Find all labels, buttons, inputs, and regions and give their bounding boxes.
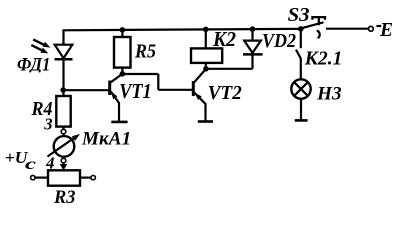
svg-text:Н3: Н3: [316, 83, 341, 104]
svg-text:R5: R5: [134, 41, 156, 63]
resistor R4: [56, 96, 70, 127]
wire photodiode to node: [62, 59, 64, 90]
node VD2 top junction dot: [250, 26, 256, 32]
wire node to R4: [62, 90, 64, 96]
ground lamp: [295, 119, 308, 122]
wire rail to R5: [121, 30, 123, 37]
wire node to VT1 base: [63, 89, 108, 91]
node R5 top junction dot: [120, 27, 126, 33]
wire R4 to terminal 3: [62, 127, 64, 130]
diode VD2: [243, 29, 263, 69]
svg-text:МкА1: МкА1: [81, 129, 131, 149]
light arrow 2: [31, 45, 48, 53]
wire node B right: [122, 73, 158, 75]
svg-text:VT2: VT2: [208, 82, 242, 104]
contact K2.1: [296, 50, 301, 59]
wire R3 left: [35, 177, 48, 179]
ground VT2: [198, 120, 213, 123]
terminal 4 circle: [61, 158, 66, 163]
terminal 3 circle: [61, 129, 66, 134]
photodiode FD1: [55, 45, 73, 60]
wire top rail: [64, 29, 302, 31]
relay coil K2: [191, 48, 222, 63]
wire S3 node down to contact K2.1: [300, 29, 302, 48]
light arrow 1: [33, 40, 50, 48]
wire after switch S3 to -E terminal: [326, 28, 369, 30]
wire R5 to node B: [121, 68, 123, 74]
lamp H3: [291, 79, 310, 98]
wire to VT2 base: [158, 89, 193, 91]
wire rail to K2 coil: [205, 29, 207, 48]
wire lamp to ground: [300, 99, 302, 121]
label -E minus: [376, 25, 381, 27]
node C junction dot: [203, 66, 209, 72]
ground VT1: [111, 121, 127, 124]
svg-text:К2.1: К2.1: [304, 48, 342, 70]
svg-text:E: E: [379, 20, 393, 41]
transistor VT2: [193, 69, 206, 121]
resistor R3 (potentiometer): [48, 170, 80, 185]
node S3 junction dot: [298, 26, 304, 32]
wire contact to lamp: [300, 58, 302, 79]
terminal circle R3 right: [91, 175, 95, 179]
svg-text:ФД1: ФД1: [17, 55, 51, 76]
svg-text:S3: S3: [288, 4, 310, 26]
resistor R5: [114, 37, 131, 68]
switch S3: [303, 17, 325, 38]
svg-text:K2: K2: [212, 27, 236, 51]
wire R3 right: [80, 177, 91, 179]
terminal -E circle: [369, 26, 374, 31]
svg-text:VT1: VT1: [119, 79, 152, 103]
wire left drop to photodiode: [62, 29, 64, 44]
wire terminal 3 to meter: [62, 134, 64, 137]
terminal circle R3 left: [31, 175, 35, 179]
svg-text:4: 4: [45, 154, 55, 173]
transistor VT1: [110, 74, 123, 122]
wire K2 to node C: [205, 63, 207, 69]
wiper arrow onto R3: [60, 163, 67, 171]
wire corner down: [157, 74, 159, 90]
node K2 top junction dot: [203, 27, 209, 33]
svg-text:VD2: VD2: [262, 30, 296, 52]
svg-text:R3: R3: [53, 188, 75, 208]
wire node C to VD2 bottom: [206, 68, 253, 70]
node A junction dot: [60, 87, 66, 93]
meter MkA1: [48, 134, 81, 157]
svg-text:с: с: [25, 156, 36, 173]
node B junction dot: [120, 71, 126, 77]
svg-text:3: 3: [43, 115, 52, 134]
